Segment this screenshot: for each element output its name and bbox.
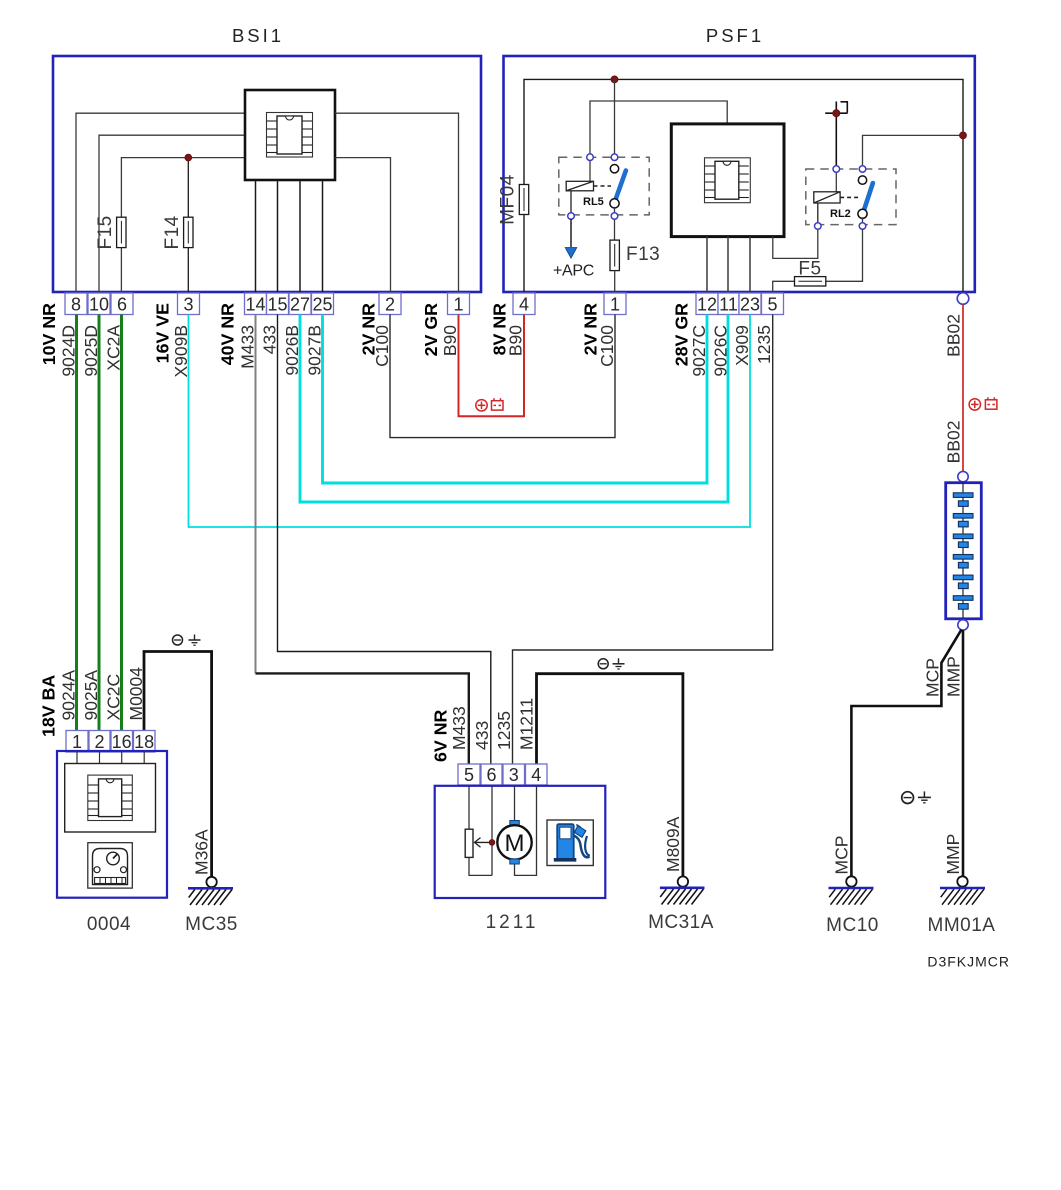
wire rail to RL5 switch [614,79,616,157]
pin 5 (PSF1) [762,293,784,315]
svg-text:F15: F15 [95,215,116,249]
svg-text:1: 1 [610,295,620,315]
svg-text:18V BA: 18V BA [39,675,59,737]
junction node rail right [960,132,967,139]
svg-text:XC2A: XC2A [104,325,124,371]
svg-text:433: 433 [472,721,492,750]
svg-text:MCP: MCP [923,658,943,697]
svg-text:C100: C100 [372,325,392,367]
+APC feed arrow [565,219,577,258]
svg-text:3: 3 [509,765,519,785]
ground MC31A [660,876,705,904]
svg-text:B90: B90 [506,325,526,356]
svg-text:5: 5 [767,295,777,315]
wire pin6 via F15 to IC (BSI1 internal) [121,158,245,293]
IC body with notch [277,116,302,154]
svg-text:2: 2 [94,732,104,752]
op-amp U2 PSF1 controller outer box [671,124,784,237]
svg-text:MC31A: MC31A [648,912,714,933]
wire X909B (BSI1-3 to PSF1-23, cyan) [189,315,751,528]
svg-text:PSF1: PSF1 [706,25,764,46]
ground MM01A [940,876,985,904]
svg-text:B90: B90 [440,325,460,356]
pin 5 (1211) [458,764,480,785]
svg-text:XC2C: XC2C [104,674,124,721]
svg-text:BSI1: BSI1 [232,25,284,46]
svg-text:MCP: MCP [832,836,852,875]
wire 9024D (BSI1-8 to 0004-1, green) [75,315,78,731]
pin 10 (BSI1) [88,293,110,315]
RL5 pin circles [587,154,594,161]
battery feed symbol on B90 [476,398,503,411]
fuse F15 [117,217,126,247]
svg-text:23: 23 [740,295,760,315]
svg-text:16: 16 [112,732,132,752]
svg-text:9027C: 9027C [689,325,709,377]
svg-text:X909B: X909B [171,325,191,378]
IC body with notch [715,161,739,199]
wire IC right to pin1 [335,113,459,293]
ground MC35 [188,877,233,905]
RL2 coil-switch dashed link [840,196,858,198]
svg-text:1235: 1235 [754,325,774,364]
svg-text:BB02: BB02 [944,421,964,464]
svg-text:MF04: MF04 [498,174,519,225]
svg-text:MMP: MMP [944,656,964,697]
pin 12 (PSF1) [696,293,718,315]
pin 3 (1211) [503,764,525,785]
svg-text:M433: M433 [238,325,258,369]
pin 8 (BSI1) [65,293,87,315]
svg-text:MMP: MMP [943,834,963,875]
ground symbol glyph right [902,791,931,803]
svg-text:27: 27 [290,295,310,315]
svg-text:D3FKJMCR: D3FKJMCR [927,954,1010,970]
IC inner frame [267,113,313,158]
svg-text:1211: 1211 [486,912,539,933]
wire U2 to pin23 [749,237,751,293]
wire RL2 switch to F5 to pin5 [826,229,863,281]
0004 IC frame [88,775,133,820]
svg-text:433: 433 [260,325,280,354]
IC pin ticks right [739,166,749,198]
svg-text:6: 6 [117,295,127,315]
svg-text:0004: 0004 [87,914,131,935]
svg-text:9024A: 9024A [59,670,79,721]
RL5 switch contacts and blade [610,165,626,241]
svg-text:2: 2 [385,295,395,315]
svg-text:4: 4 [531,765,541,785]
wire 9027B (BSI1-25 to PSF1-12, cyan) [323,315,708,484]
unit PSF1 enclosure [504,56,975,292]
svg-text:1: 1 [453,295,463,315]
wire M1211 (1211-4 to MC31A ground) [537,674,683,877]
wire pin8 to IC (BSI1 internal) [76,113,245,293]
unit 0004 enclosure [57,751,167,898]
wire IC to pin27 [299,180,301,293]
junction node top rail / RL5 [611,76,618,83]
ground MC10 [829,876,874,904]
IC pin ticks left [267,121,277,153]
svg-text:M36A: M36A [192,829,212,875]
svg-text:+APC: +APC [553,263,594,280]
IC pin ticks right [302,121,312,153]
fuse F14 [184,217,193,247]
unit 1211 enclosure [435,786,606,898]
wire pin10 to IC (BSI1 internal) [99,135,245,293]
wire MCP (battery to MC10 ground) [851,630,961,878]
svg-text:1: 1 [72,732,82,752]
pin 4 (PSF1) [513,293,535,315]
fuel pump icon [547,820,593,866]
svg-text:8: 8 [71,295,81,315]
svg-text:10V NR: 10V NR [39,303,59,365]
svg-text:6V NR: 6V NR [431,709,451,762]
wire XC2A (BSI1-6 to 0004-16, green) [120,315,123,731]
battery feed symbol on BB02 [969,397,997,410]
svg-text:9025A: 9025A [81,670,101,721]
svg-text:RL2: RL2 [830,208,851,220]
pin 4 (1211) [526,764,548,785]
fuse F5 [795,277,826,286]
svg-text:14: 14 [245,295,265,315]
op-amp U1 BSI1 controller outer box [245,90,335,180]
connector circle battery top [958,471,968,481]
svg-text:16V VE: 16V VE [153,303,173,363]
wire M433 horizontal to 1211-5 (ground, thick) [256,673,469,764]
wire rail to RL2 switch [863,135,964,169]
relay RL5 dashed box [559,157,649,215]
wire M0004 (0004-18 to MC35 ground) [144,652,212,878]
svg-text:2V GR: 2V GR [421,303,441,357]
wire C100 (BSI1-2 to PSF1-1) [390,315,615,438]
svg-text:1235: 1235 [494,711,514,750]
ground symbol glyph near 0004 [173,635,201,646]
svg-text:9024D: 9024D [59,325,79,377]
svg-text:25: 25 [312,295,332,315]
pin 2 (BSI1) [379,293,401,315]
svg-text:F5: F5 [798,259,821,280]
pin 1 (PSF1) [604,293,626,315]
svg-text:9026C: 9026C [711,325,731,377]
svg-text:15: 15 [267,295,287,315]
svg-text:RL5: RL5 [583,196,604,208]
pin 2 (0004) [89,731,110,753]
svg-text:12: 12 [697,295,717,315]
svg-text:40V NR: 40V NR [218,303,238,365]
wire MMP (battery to MM01A ground) [962,630,965,877]
fuel sender resistor with wiper [465,786,495,876]
svg-text:M433: M433 [449,706,469,750]
pin 16 (0004) [111,731,133,753]
svg-text:M809A: M809A [663,816,683,872]
pin 1 (0004) [66,731,88,753]
wire 9025D (BSI1-10 to 0004-2, green) [98,315,101,731]
svg-text:10: 10 [89,295,109,315]
battery BB00 enclosure [946,483,982,619]
svg-text:BB02: BB02 [944,314,964,357]
pin 14 (BSI1) [245,293,267,315]
wire BB02 (red) [962,304,964,471]
RL5 coil [566,157,593,216]
wire IC right to pin2 [335,158,391,293]
IC pin ticks left [705,166,715,198]
RL2 pin circles [833,166,840,173]
IC inner frame [705,158,751,203]
pin 25 (BSI1) [312,293,334,315]
wire U2 to RL2 coil [773,226,818,258]
svg-text:M1211: M1211 [517,698,537,750]
wire U2 to pin11 [727,237,729,293]
svg-text:MM01A: MM01A [928,915,996,936]
wire top rail (pin4 feed) [524,79,963,293]
0004 IC body with notch [99,779,122,817]
relay RL2 dashed box [806,169,896,225]
pin 15 (BSI1) [267,293,289,315]
connector circle BB02 top [957,293,969,305]
wire U2 to pin12 [706,237,708,293]
svg-text:MC10: MC10 [826,915,879,936]
pin 1 (BSI1) [448,293,470,315]
wire pin3 via F14 (BSI1 internal) [187,158,189,293]
svg-text:9027B: 9027B [305,325,325,376]
pin 18 (0004) [134,731,156,753]
svg-text:11: 11 [719,295,738,315]
fuse F13 [610,240,619,271]
pin 6 (1211) [481,764,502,785]
wire 433 (BSI1-15 to 1211-6) [278,315,491,765]
wire rail2 to RL5 coil [590,101,727,157]
pin 27 (BSI1) [289,293,311,315]
wire 9026B (BSI1-27 to PSF1-11, cyan) [300,315,728,503]
svg-text:9026B: 9026B [282,325,302,376]
pin 6 (BSI1) [111,293,133,315]
pin 3 (BSI1) [178,293,200,315]
svg-text:MC35: MC35 [185,914,238,935]
svg-text:4: 4 [519,295,529,315]
fuse MF04 [519,185,528,215]
RL2 coil [814,169,840,226]
svg-text:3: 3 [183,295,193,315]
svg-text:X909: X909 [732,325,752,366]
fuel pump motor M [497,786,536,876]
0004 IC ticks left [88,785,99,816]
wire IC to pin25 [322,180,324,293]
battery cells [953,483,973,619]
wire F13 to pin1 [614,271,616,293]
unit BSI1 enclosure [53,56,481,292]
svg-text:F14: F14 [162,215,183,249]
svg-text:5: 5 [464,765,474,785]
0004 IC housing [65,764,156,833]
RL2 switch contacts and blade [858,176,873,226]
svg-text:9025D: 9025D [81,325,101,377]
svg-text:F13: F13 [626,244,660,265]
wire M433 (BSI1-14 down, gray) [255,315,257,674]
connector circle battery bottom [958,620,968,630]
junction node on pin6 rail [185,154,192,161]
wire IC to pin15 [277,180,279,293]
svg-text:6: 6 [486,765,496,785]
wire B90 (BSI1-1 to PSF1-4, red) [459,315,525,417]
pin 11 (PSF1) [718,293,739,315]
0004 IC ticks right [122,785,133,816]
pin 23 (PSF1) [739,293,761,315]
supply node symbol above RL2 [825,102,847,170]
0004 instrument cluster icon [88,843,133,888]
RL5 coil-switch dashed link [594,185,612,187]
svg-text:C100: C100 [597,325,617,367]
wire IC to pin14 [255,180,257,293]
svg-text:18: 18 [134,732,154,752]
0004 pin stubs [77,752,144,764]
svg-text:M: M [505,830,525,857]
ground symbol glyph near 1211 [598,658,624,669]
wire 1235 (PSF1-5 to 1211-3) [513,315,773,765]
